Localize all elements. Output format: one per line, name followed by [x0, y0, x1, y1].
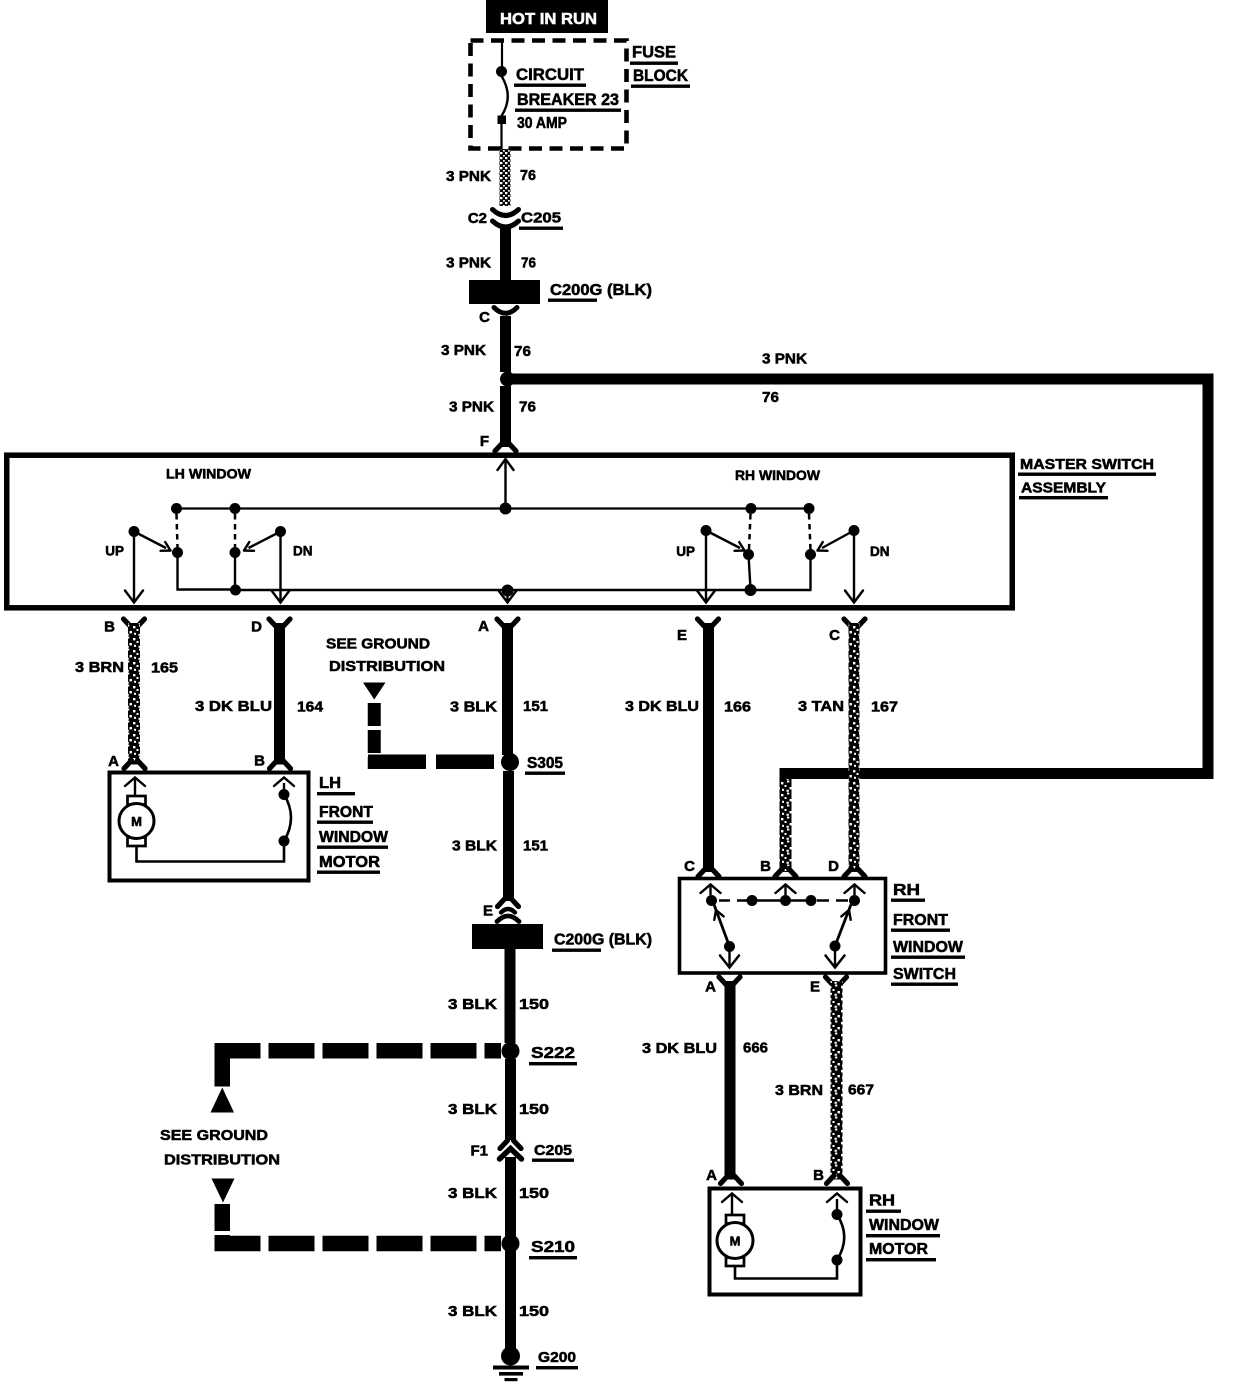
svg-text:MOTOR: MOTOR	[319, 854, 380, 871]
svg-text:D: D	[251, 619, 262, 636]
svg-text:DN: DN	[870, 544, 890, 559]
svg-text:A: A	[706, 1167, 717, 1184]
svg-text:BLOCK: BLOCK	[633, 67, 688, 85]
svg-text:76: 76	[514, 343, 531, 360]
svg-text:76: 76	[519, 399, 536, 416]
svg-text:S210: S210	[531, 1239, 575, 1256]
svg-text:C200G (BLK): C200G (BLK)	[554, 932, 652, 949]
svg-text:C205: C205	[521, 210, 561, 227]
svg-text:WINDOW: WINDOW	[893, 939, 963, 956]
svg-text:151: 151	[523, 698, 548, 715]
svg-text:3 BLK: 3 BLK	[448, 996, 497, 1013]
svg-text:ASSEMBLY: ASSEMBLY	[1021, 480, 1106, 497]
svg-text:M: M	[131, 814, 142, 829]
svg-text:A: A	[478, 618, 489, 635]
svg-text:165: 165	[151, 660, 178, 677]
svg-text:CIRCUIT: CIRCUIT	[516, 66, 584, 84]
svg-text:D: D	[828, 858, 839, 875]
svg-text:S222: S222	[531, 1045, 575, 1062]
svg-text:3 BRN: 3 BRN	[775, 1082, 823, 1099]
svg-text:3 TAN: 3 TAN	[798, 698, 844, 715]
svg-text:150: 150	[519, 1101, 549, 1118]
svg-text:DISTRIBUTION: DISTRIBUTION	[164, 1152, 280, 1169]
svg-text:RH: RH	[869, 1193, 895, 1210]
svg-text:WINDOW: WINDOW	[869, 1217, 939, 1234]
svg-text:C: C	[684, 858, 695, 875]
svg-text:3 PNK: 3 PNK	[441, 342, 486, 359]
svg-text:A: A	[108, 753, 119, 770]
svg-text:3 PNK: 3 PNK	[446, 255, 491, 272]
svg-text:HOT IN RUN: HOT IN RUN	[500, 11, 597, 28]
svg-text:3 BLK: 3 BLK	[448, 1303, 497, 1320]
svg-text:E: E	[810, 979, 820, 996]
svg-text:3 BRN: 3 BRN	[75, 659, 124, 676]
svg-text:MOTOR: MOTOR	[869, 1241, 928, 1258]
svg-text:76: 76	[521, 255, 536, 272]
svg-text:FRONT: FRONT	[893, 912, 949, 929]
svg-text:76: 76	[762, 389, 779, 406]
svg-text:3 BLK: 3 BLK	[448, 1185, 497, 1202]
svg-text:3 BLK: 3 BLK	[450, 699, 497, 716]
svg-text:E: E	[483, 903, 493, 920]
svg-text:C205: C205	[534, 1142, 572, 1159]
svg-text:FRONT: FRONT	[319, 804, 374, 821]
svg-text:30 AMP: 30 AMP	[517, 115, 567, 132]
svg-text:S305: S305	[527, 755, 563, 772]
svg-text:RH WINDOW: RH WINDOW	[735, 467, 821, 483]
svg-text:150: 150	[519, 996, 549, 1013]
svg-text:150: 150	[519, 1185, 549, 1202]
svg-text:BREAKER 23: BREAKER 23	[517, 91, 619, 109]
svg-text:C200G (BLK): C200G (BLK)	[550, 282, 652, 299]
svg-text:LH: LH	[319, 775, 341, 792]
svg-text:LH WINDOW: LH WINDOW	[166, 466, 252, 482]
svg-text:166: 166	[724, 699, 751, 716]
svg-text:B: B	[760, 858, 771, 875]
svg-text:B: B	[104, 619, 115, 636]
svg-text:FUSE: FUSE	[632, 44, 676, 62]
svg-text:3 BLK: 3 BLK	[448, 1101, 497, 1118]
svg-text:3 PNK: 3 PNK	[762, 351, 807, 368]
svg-text:B: B	[254, 753, 265, 770]
svg-text:UP: UP	[676, 544, 695, 559]
svg-text:3 BLK: 3 BLK	[452, 838, 497, 855]
svg-text:UP: UP	[105, 544, 124, 559]
svg-text:WINDOW: WINDOW	[319, 829, 388, 846]
svg-text:M: M	[730, 1234, 741, 1249]
svg-text:RH: RH	[893, 882, 920, 899]
svg-text:666: 666	[743, 1040, 768, 1057]
svg-text:3 PNK: 3 PNK	[446, 168, 491, 185]
svg-text:SWITCH: SWITCH	[893, 966, 956, 983]
svg-text:667: 667	[848, 1082, 874, 1099]
svg-text:167: 167	[871, 699, 898, 716]
svg-text:E: E	[677, 627, 687, 644]
svg-text:DISTRIBUTION: DISTRIBUTION	[329, 658, 445, 675]
svg-text:MASTER SWITCH: MASTER SWITCH	[1020, 456, 1154, 473]
svg-text:164: 164	[297, 699, 324, 716]
svg-text:C: C	[829, 627, 840, 644]
svg-text:A: A	[705, 979, 716, 996]
svg-text:C2: C2	[468, 210, 487, 227]
svg-text:3 PNK: 3 PNK	[449, 399, 494, 416]
svg-text:3 DK BLU: 3 DK BLU	[195, 698, 272, 715]
svg-text:151: 151	[523, 838, 548, 855]
svg-text:DN: DN	[293, 544, 313, 559]
svg-text:G200: G200	[538, 1349, 576, 1366]
svg-text:F1: F1	[470, 1143, 488, 1160]
svg-text:C: C	[479, 309, 490, 326]
svg-text:F: F	[480, 433, 489, 450]
svg-text:SEE GROUND: SEE GROUND	[326, 636, 430, 653]
svg-text:B: B	[813, 1167, 824, 1184]
svg-text:76: 76	[520, 167, 536, 184]
svg-text:SEE GROUND: SEE GROUND	[160, 1127, 268, 1144]
svg-text:150: 150	[519, 1303, 549, 1320]
svg-text:3 DK BLU: 3 DK BLU	[625, 698, 699, 715]
svg-text:3 DK BLU: 3 DK BLU	[642, 1040, 717, 1057]
